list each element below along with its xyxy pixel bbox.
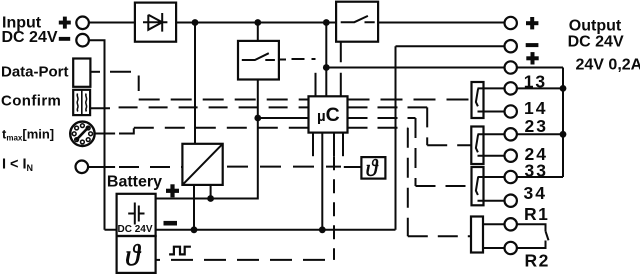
node battery plus at converter <box>207 195 214 202</box>
wire output minus horizontal <box>396 45 505 47</box>
wire S1 top pin <box>257 23 259 41</box>
converter U2 box <box>182 144 222 185</box>
battery capacitor symbol <box>128 203 144 225</box>
wire top bus diode to switch S2 <box>176 22 336 24</box>
wire 33 to common bus <box>517 176 563 178</box>
dashed uC row1 to relay K1 <box>348 99 472 101</box>
wire 24 <box>478 155 505 157</box>
wire output minus vertical <box>395 46 397 230</box>
wire 33 <box>478 176 505 178</box>
dashed uC row3 to relay K3 <box>348 118 472 186</box>
wire battery plus line <box>156 80 258 199</box>
confirm button squiggle left <box>76 94 79 112</box>
svg-text:33: 33 <box>525 161 548 181</box>
wire 13 to common bus <box>517 87 563 89</box>
terminal 33 <box>505 171 517 183</box>
wire R1 <box>483 223 505 225</box>
input plus terminal <box>76 17 89 30</box>
uC top pin 3 from S2 <box>340 42 342 97</box>
wire converter top pin <box>194 23 196 144</box>
output plus sign <box>526 17 538 29</box>
wire theta sensor stub <box>344 166 362 168</box>
svg-text:ϑ: ϑ <box>366 156 379 182</box>
wire uC pin3 left <box>258 117 309 119</box>
dashed uC row2 to relay K2 <box>348 107 472 145</box>
wire 23 to common bus <box>517 133 563 135</box>
output plus2 terminal <box>505 61 517 73</box>
diode D1 symbol <box>143 13 167 32</box>
svg-text:R1: R1 <box>524 204 549 224</box>
output plus terminal <box>505 17 517 29</box>
node top bus at uC tap <box>323 19 330 26</box>
confirm button box <box>73 90 90 115</box>
output minus terminal <box>505 40 517 52</box>
node top bus at S1 tap <box>254 19 261 26</box>
remote switch lever <box>546 231 549 240</box>
uC bottom pin stub b <box>333 133 335 157</box>
diode D1 box <box>135 3 176 42</box>
wire confirm stub <box>90 107 110 109</box>
wire current limit stub <box>88 166 115 168</box>
node S1 line at uC pin3 <box>254 115 261 122</box>
battery plus sign <box>166 184 179 197</box>
dashed rotary link <box>119 128 309 134</box>
dashed data-port link <box>110 72 309 100</box>
wire relay common bus vertical <box>562 68 564 178</box>
node plus branch <box>323 64 330 71</box>
wire 23 <box>478 133 505 135</box>
svg-text:tmax[min]: tmax[min] <box>2 127 54 143</box>
uC bottom pin stub a <box>312 133 314 157</box>
remote contact box <box>471 217 483 253</box>
terminal 13 <box>505 82 517 94</box>
svg-text:Confirm: Confirm <box>1 93 61 110</box>
svg-text:µC: µC <box>317 104 340 126</box>
dashed uC pulse dropper <box>333 156 335 260</box>
relay K2 contact <box>476 135 478 153</box>
svg-text:DC 24V: DC 24V <box>2 29 58 46</box>
dashed current limit link to theta <box>227 166 341 168</box>
svg-text:Output: Output <box>569 17 622 34</box>
battery minus sign <box>164 221 178 226</box>
svg-text:14: 14 <box>524 98 547 118</box>
svg-text:Data-Port: Data-Port <box>1 64 69 81</box>
data-port box <box>73 59 90 87</box>
svg-text:I<IN: I<IN <box>2 157 33 174</box>
confirm button divider <box>81 90 83 115</box>
switch S2 contact <box>341 16 375 22</box>
wire converter pin to battery plus <box>210 185 212 199</box>
input minus terminal <box>76 34 89 47</box>
wire uC top feed <box>325 23 327 97</box>
wire R2 external link <box>517 241 546 249</box>
terminal R1 <box>505 218 517 230</box>
output plus2 sign <box>526 52 538 64</box>
input minus sign <box>59 37 70 41</box>
uC bottom pin to minus rail <box>321 133 323 230</box>
node top bus at converter tap <box>192 19 199 26</box>
relay K2 box <box>471 127 483 165</box>
svg-text:34: 34 <box>524 183 547 203</box>
dashed confirm link <box>119 106 309 108</box>
wire plus rail to output <box>326 67 504 69</box>
wire R2 <box>483 247 505 249</box>
wire rotary stub <box>94 133 115 135</box>
relay K3 box <box>472 167 484 205</box>
dashed current limit link <box>119 166 182 168</box>
node minus rail at battery <box>191 226 198 233</box>
dashed uC row4 to remote box <box>348 128 472 237</box>
wire battery theta tick <box>156 259 160 261</box>
wire input minus down <box>89 40 105 230</box>
confirm button squiggle right <box>85 94 88 112</box>
node common bus at 13 <box>560 85 567 92</box>
wire 14 <box>478 111 505 113</box>
wire converter pin to minus rail <box>193 185 195 230</box>
dashed pulse row <box>171 259 334 261</box>
wire S2 to output plus terminal <box>378 22 504 24</box>
output minus sign <box>526 43 539 47</box>
svg-text:13: 13 <box>524 71 547 91</box>
svg-text:23: 23 <box>525 116 548 136</box>
relay K1 box <box>472 82 484 118</box>
wire output plus to relay common bus <box>517 67 563 69</box>
battery capacitor box <box>117 194 156 236</box>
wire R1 external link <box>517 224 546 231</box>
wire S1 aux stub <box>279 59 286 61</box>
svg-text:DC 24V: DC 24V <box>568 34 624 51</box>
dashed S1 aux to uC <box>292 58 316 60</box>
svg-text:R2: R2 <box>525 250 550 270</box>
rotary selector dots <box>72 124 92 144</box>
theta sensor box <box>361 157 385 179</box>
converter U2 diagonal <box>182 144 222 185</box>
terminal 24 <box>505 150 517 162</box>
uC U1 box <box>309 96 348 132</box>
current limit terminal <box>76 161 89 174</box>
input plus sign <box>59 17 71 29</box>
rotary selector outer <box>70 122 94 146</box>
terminal R2 <box>505 242 517 254</box>
wire input plus to diode <box>89 22 135 24</box>
svg-text:Battery: Battery <box>107 173 162 190</box>
switch S1 contact <box>242 53 275 60</box>
node minus rail at uC <box>319 226 326 233</box>
wire minus rail <box>105 229 396 231</box>
svg-text:ϑ: ϑ <box>125 239 142 272</box>
svg-text:DC 24V: DC 24V <box>118 224 153 235</box>
terminal 14 <box>505 105 517 117</box>
relay K1 contact <box>476 89 478 107</box>
wire 13 <box>478 87 505 89</box>
rotary selector needle <box>76 127 89 140</box>
terminal 34 <box>505 195 517 207</box>
switch S2 box <box>336 2 378 42</box>
switch S1 box <box>238 41 279 80</box>
pulse symbol <box>169 247 191 255</box>
svg-text:24V 0,2A: 24V 0,2A <box>576 57 640 74</box>
uC top pin 1 <box>315 73 317 97</box>
terminal 23 <box>505 128 517 140</box>
uC bottom pin stub c <box>342 133 344 157</box>
wire 34 <box>478 200 505 202</box>
node common bus at 23 <box>560 131 567 138</box>
battery theta box <box>117 236 156 273</box>
relay K3 contact <box>476 177 478 195</box>
wire data-port stub <box>90 71 100 73</box>
